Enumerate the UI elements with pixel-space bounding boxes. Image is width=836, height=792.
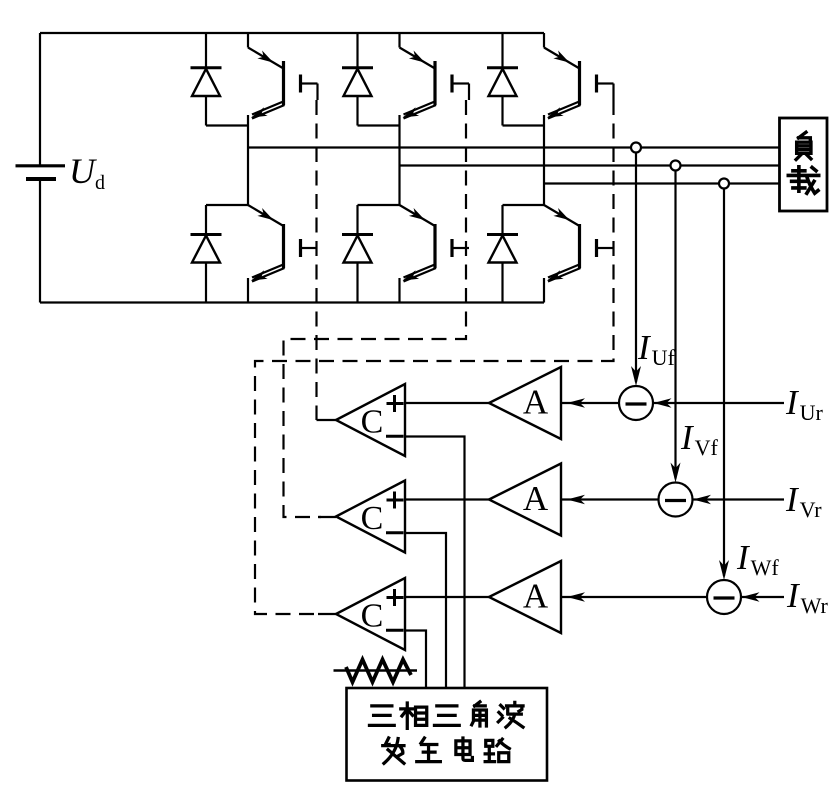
wire VD2 cathode lead <box>356 33 358 68</box>
label bo (generator text line1) <box>498 702 523 727</box>
transistor VT4 gate bar <box>299 239 302 257</box>
wire transistor VT2 gate lead <box>453 82 469 84</box>
transistor VT5 emitter line 1 <box>404 264 437 278</box>
wire I_Vr reference input <box>693 498 785 500</box>
diode VD5 cathode bar <box>342 233 373 236</box>
wire VT1 gate stub down <box>316 84 318 101</box>
summing junction V <box>659 483 693 517</box>
transistor VT1 collector diagonal <box>248 48 284 69</box>
transistor VT4 channel bar <box>282 224 285 268</box>
diode VD6 triangle <box>489 236 517 263</box>
transistor VT6 emitter line 2 <box>548 268 581 282</box>
transistor VT5 gate bar <box>450 239 453 257</box>
wire summer U to amplifier A <box>561 402 619 404</box>
wire transistor VT1 collector drop <box>247 33 249 48</box>
wire bottom DC bus (-) <box>40 301 544 303</box>
wire dashed gate drive phase V route <box>284 100 467 517</box>
wire I_Wf feedback drop <box>723 189 725 577</box>
wire C3 minus input from triangle generator <box>405 631 426 689</box>
minus sign in summer U <box>626 402 647 405</box>
wire VT5 emitter to bottom bus <box>398 278 400 303</box>
wire VD6 cathode lead <box>501 205 503 235</box>
diode VD4 triangle <box>192 236 220 263</box>
arrow error signal into A (V) <box>567 495 585 505</box>
transistor VT5 emitter arrow <box>403 270 420 280</box>
wire A1 output to comparator + input <box>405 402 489 404</box>
wire transistor VT2 collector drop <box>398 33 400 48</box>
plus sign C3 <box>387 596 404 599</box>
transistor VT4 collector diagonal <box>248 205 284 226</box>
transistor VT3 emitter arrow <box>547 107 564 117</box>
op-amp C2 (hysteresis comparator, phase V) <box>336 481 405 553</box>
wire transistor VT5 gate lead <box>453 247 469 249</box>
box three-phase triangle wave generator 三相三角波发生电路 <box>347 688 548 781</box>
wire transistor VT3 collector drop <box>543 33 545 48</box>
op-amp A2 (amplifier, phase V) <box>489 464 561 536</box>
transistor VT1 gate bar <box>299 75 302 93</box>
transistor VT1 emitter line 2 <box>252 105 285 119</box>
transistor VT2 channel bar <box>433 61 436 105</box>
wire VD2 anode to VT2 emitter link <box>358 124 400 126</box>
wire C3 output solid stub <box>318 613 336 615</box>
diode VD3 triangle <box>489 69 517 96</box>
transistor VT6 collector arrow <box>553 208 569 220</box>
wire A3 output to comparator + input <box>405 596 489 598</box>
wire phase node to VT4 collector <box>247 148 249 206</box>
wire C1 minus input from triangle generator <box>405 437 465 689</box>
svg-text:IWr: IWr <box>786 576 829 618</box>
arrow I_Vr into summer <box>693 495 711 505</box>
label fa (generator text line2) <box>383 738 404 763</box>
wire I_Uf feedback drop <box>635 153 637 383</box>
wire C1 output to dashed line <box>317 419 337 421</box>
wire transistor VT6 gate lead <box>598 247 614 249</box>
diode VD1 cathode bar <box>191 66 222 69</box>
wire phase U output rail <box>248 146 780 148</box>
svg-text:IUr: IUr <box>785 383 824 425</box>
label lu (generator text line2) <box>485 739 509 761</box>
arrow error signal into A (U) <box>567 398 585 408</box>
plus sign C1 <box>387 402 404 405</box>
diode VD5 triangle <box>344 236 372 263</box>
transistor VT1 collector arrow <box>257 51 273 63</box>
label 载 (load char 2) <box>788 167 818 193</box>
arrow I_Wr into summer <box>742 592 760 602</box>
diode VD1 triangle <box>192 69 220 96</box>
transistor VT2 emitter line 1 <box>404 101 437 115</box>
node V current sensing point <box>671 161 681 171</box>
transistor VT5 channel bar <box>433 224 436 268</box>
minus sign C1 <box>386 435 404 438</box>
wire top DC bus (+) <box>40 32 544 34</box>
node U current sensing point <box>631 143 641 153</box>
wire VT2 gate stub down <box>468 84 470 101</box>
transistor VT6 emitter line 1 <box>548 264 581 278</box>
wire I_Wr reference input <box>741 596 784 598</box>
svg-text:A: A <box>523 577 549 616</box>
minus sign in summer W <box>714 596 735 599</box>
transistor VT6 collector diagonal <box>544 205 580 226</box>
wire dashed gate drive phase U vertical <box>315 100 317 420</box>
transistor VT2 collector arrow <box>409 51 425 63</box>
wire VT2 emitter to phase node <box>398 115 400 166</box>
transistor VT4 emitter arrow <box>251 270 268 280</box>
wire summer W to amplifier A <box>561 596 707 598</box>
svg-text:IVf: IVf <box>680 418 719 460</box>
minus sign in summer V <box>665 499 686 502</box>
wire VT6 emitter to bottom bus <box>543 278 545 303</box>
transistor VT1 emitter arrow <box>251 107 268 117</box>
wire VD5 anode lead <box>356 263 358 303</box>
op-amp A3 (amplifier, phase W) <box>489 561 561 633</box>
transistor VT3 gate bar <box>595 75 598 93</box>
diode VD6 cathode bar <box>487 233 518 236</box>
label xiang (generator text line1) <box>401 703 427 728</box>
svg-text:IUf: IUf <box>637 328 676 370</box>
transistor VT3 collector arrow <box>553 51 569 63</box>
arrow I_Wf into summer <box>719 560 729 580</box>
wire transistor VT4 gate lead <box>302 247 318 249</box>
label sheng (generator text line2) <box>417 738 441 762</box>
wire C2 minus input from triangle generator <box>405 533 446 688</box>
transistor VT6 channel bar <box>578 224 581 268</box>
svg-text:C: C <box>361 598 384 635</box>
wire VD4 cathode to VT4 collector link <box>206 204 248 206</box>
wire VD5 cathode lead <box>356 205 358 235</box>
label san (generator text line1) <box>434 706 459 725</box>
node W current sensing point <box>719 179 729 189</box>
op-amp C1 (hysteresis comparator, phase U) <box>336 384 405 456</box>
transistor VT2 gate bar <box>450 75 453 93</box>
wire VD3 anode lead <box>501 96 503 126</box>
wire C2 output solid stub <box>318 516 336 518</box>
wire VD6 cathode to VT6 collector link <box>503 204 545 206</box>
battery Ud negative plate <box>26 177 56 181</box>
wire VD4 cathode lead <box>205 205 207 235</box>
transistor VT5 emitter line 2 <box>404 268 437 282</box>
wire transistor VT3 gate lead <box>598 82 614 84</box>
diode VD2 triangle <box>344 69 372 96</box>
summing junction U <box>619 386 653 420</box>
svg-text:Ud: Ud <box>69 151 105 194</box>
transistor VT1 emitter line 1 <box>252 101 285 115</box>
wire VD1 anode to VT1 emitter link <box>206 124 248 126</box>
summing junction W <box>707 580 741 614</box>
label 负 (load char 1) <box>796 132 811 159</box>
wire VT3 emitter to phase node <box>543 115 545 184</box>
wire summer V to amplifier A <box>561 498 659 500</box>
transistor VT6 emitter arrow <box>547 270 564 280</box>
label san (generator text line1) <box>369 706 394 725</box>
wire transistor VT1 gate lead <box>302 82 318 84</box>
load box 负载 <box>780 118 828 211</box>
transistor VT4 emitter line 1 <box>252 264 285 278</box>
wire VD2 anode lead <box>356 96 358 126</box>
arrow I_Uf into summer <box>631 366 641 386</box>
wire phase V output rail <box>400 164 780 166</box>
minus sign C3 <box>386 629 404 632</box>
wire VD3 anode to VT3 emitter link <box>503 124 545 126</box>
label dian (generator text line2) <box>456 738 473 760</box>
wire I_Vf feedback drop <box>674 171 676 479</box>
transistor VT5 collector diagonal <box>400 205 436 226</box>
transistor VT4 emitter line 2 <box>252 268 285 282</box>
transistor VT2 emitter line 2 <box>404 105 437 119</box>
svg-text:A: A <box>523 479 549 518</box>
minus sign C2 <box>386 531 404 534</box>
transistor VT3 emitter line 2 <box>548 105 581 119</box>
transistor VT3 collector diagonal <box>544 48 580 69</box>
transistor VT3 channel bar <box>578 61 581 105</box>
wire VD3 cathode lead <box>501 33 503 68</box>
transistor VT5 collector arrow <box>409 208 425 220</box>
wire A2 output to comparator + input <box>405 498 489 500</box>
wire VD4 anode lead <box>205 263 207 303</box>
wire VD1 cathode lead <box>205 33 207 68</box>
wire VD6 anode lead <box>501 263 503 303</box>
wire left bus lower <box>39 179 41 303</box>
wire VT4 emitter to bottom bus <box>247 278 249 303</box>
diode VD4 cathode bar <box>191 233 222 236</box>
svg-text:IVr: IVr <box>785 480 822 522</box>
arrow I_Ur into summer <box>654 398 672 408</box>
diode VD3 cathode bar <box>487 66 518 69</box>
arrow error signal into A (W) <box>567 592 585 602</box>
wire left bus upper <box>39 33 41 166</box>
transistor VT4 collector arrow <box>257 208 273 220</box>
transistor VT2 collector diagonal <box>400 48 436 69</box>
triangle wave baseline <box>334 669 418 671</box>
transistor VT1 channel bar <box>282 61 285 105</box>
transistor VT2 emitter arrow <box>403 107 420 117</box>
wire VT3 gate stub down <box>612 84 614 101</box>
label jiao (generator text line1) <box>472 702 487 726</box>
wire phase node to VT5 collector <box>398 166 400 206</box>
triangle wave zigzag symbol <box>346 660 411 683</box>
svg-text:A: A <box>523 383 549 422</box>
wire VD1 anode lead <box>205 96 207 126</box>
wire phase node to VT6 collector <box>543 184 545 206</box>
wire VD5 cathode to VT5 collector link <box>358 204 400 206</box>
wire VT1 emitter to phase node <box>247 115 249 148</box>
arrow I_Vf into summer <box>671 463 681 483</box>
op-amp A1 (amplifier, phase U) <box>489 367 561 439</box>
battery Ud positive plate <box>16 164 66 167</box>
op-amp C3 (hysteresis comparator, phase W) <box>336 578 405 650</box>
wire dashed gate drive phase W route <box>255 100 614 614</box>
transistor VT6 gate bar <box>595 239 598 257</box>
svg-text:C: C <box>361 404 384 441</box>
svg-text:IWf: IWf <box>736 538 779 580</box>
wire phase W output rail <box>544 182 780 184</box>
diode VD2 cathode bar <box>342 66 373 69</box>
transistor VT3 emitter line 1 <box>548 101 581 115</box>
wire I_Ur reference input <box>653 402 784 404</box>
plus sign C2 <box>387 499 404 502</box>
svg-text:C: C <box>361 500 384 537</box>
